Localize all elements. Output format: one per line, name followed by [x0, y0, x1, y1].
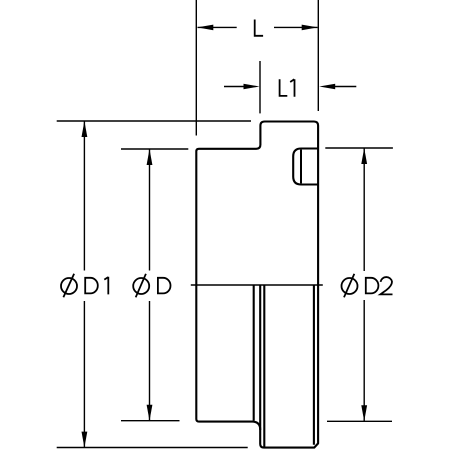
D2 arrow top	[361, 148, 367, 164]
label ØD	[133, 278, 149, 294]
D1 top extension line	[57, 120, 251, 122]
L arrow right	[302, 25, 318, 31]
L1 dimension line left	[224, 86, 245, 88]
L dimension line	[198, 26, 318, 28]
D arrow bottom	[147, 405, 153, 421]
L1 dimension line right	[334, 86, 356, 88]
label L1	[280, 79, 288, 96]
D2 top extension line	[325, 147, 393, 149]
nose bump outline	[293, 149, 318, 185]
bore shoulder line x=253.7	[253, 285, 255, 421]
D1 dimension line	[83, 122, 85, 448]
L arrow left	[197, 25, 213, 31]
D1 arrow top	[82, 121, 88, 137]
shoulder edge x=260 below centerline	[259, 285, 261, 430]
label ØD2	[342, 278, 358, 294]
D arrow top	[147, 149, 153, 165]
L right extension line	[317, 0, 319, 111]
D1 bottom extension line	[57, 447, 248, 449]
chamfer witness line x=313.9	[313, 285, 315, 445]
D top extension line	[121, 148, 188, 150]
D2 bottom extension line	[327, 420, 392, 422]
D dimension line	[149, 150, 151, 421]
L1 arrow right	[319, 84, 335, 90]
bump tangent line	[300, 150, 302, 184]
label ØD1	[61, 278, 77, 294]
label L	[255, 20, 263, 36]
L left extension line	[195, 0, 197, 136]
L1 mid extension line	[259, 61, 261, 113]
D bottom extension line	[121, 420, 180, 422]
chamfer witness line x=264.3	[263, 285, 265, 447]
part body outline	[196, 122, 318, 448]
D2 arrow bottom	[361, 405, 367, 421]
centerline	[191, 284, 323, 286]
D1 arrow bottom	[82, 432, 88, 448]
L1 arrow left	[244, 84, 260, 90]
D2 dimension line	[363, 149, 365, 422]
